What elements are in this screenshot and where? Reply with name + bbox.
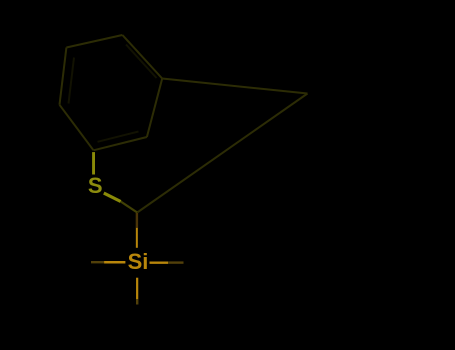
wire ring bond V3-V2b — [147, 79, 162, 138]
Si right methyl arm faint tail — [168, 261, 183, 263]
wire ring bond B-L1 — [60, 105, 94, 151]
Si left methyl arm faint tail — [91, 261, 104, 263]
svg-text:S: S — [88, 173, 103, 198]
long chain bond V3-APEX (faint) — [162, 79, 307, 94]
wire ring bond L2-T — [66, 35, 122, 48]
aromatic inner lines (fainter) — [69, 45, 157, 142]
long chain bond APEX-CH (faint) — [137, 94, 307, 213]
wire ring bond V2b-B — [94, 137, 147, 150]
svg-text:Si: Si — [128, 249, 149, 274]
benzene ring (faint) — [60, 35, 163, 150]
wire ring bond L1-L2 — [60, 48, 67, 105]
bond CH to Si: bright part — [136, 228, 138, 248]
bond ring-B to S (bright olive vertical) — [92, 152, 95, 174]
Si left methyl arm bright — [104, 261, 125, 263]
Si down methyl arm bright — [136, 278, 138, 300]
Si down methyl arm faint tail — [136, 299, 138, 304]
wire ring bond T-V3 — [122, 35, 162, 79]
bond CH to Si: faint upper part — [136, 213, 138, 228]
Si right methyl arm bright — [150, 261, 169, 263]
bond S-CH bright part — [104, 193, 121, 201]
bond S-CH faint continuation to CH — [121, 202, 138, 213]
